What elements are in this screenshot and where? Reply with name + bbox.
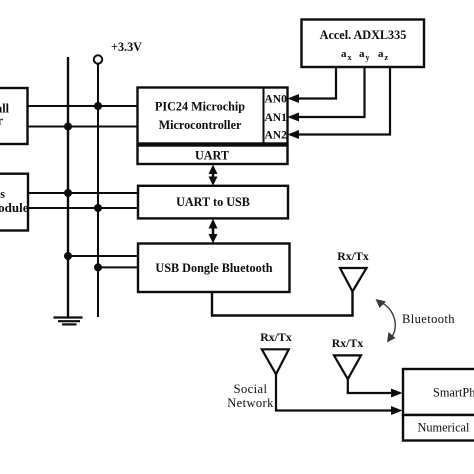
- wire B1 lower to PIC24: [28, 126, 138, 128]
- wire double arrow UART / UART-to-USB: [209, 165, 218, 186]
- node +3.3V terminal circle: [94, 55, 102, 63]
- svg-text:Module: Module: [0, 200, 29, 215]
- svg-text:y: y: [366, 53, 370, 62]
- svg-text:sensors: sensors: [0, 187, 5, 201]
- wire bluetooth curved arrow: [379, 302, 395, 340]
- svg-text:Rx/Tx: Rx/Tx: [332, 336, 364, 350]
- block U2 Accel ADXL335: [302, 20, 425, 68]
- block U4 USB Dongle Bluetooth: [138, 244, 290, 293]
- antenna A2: [262, 349, 289, 374]
- svg-text:USB Dongle Bluetooth: USB Dongle Bluetooth: [155, 261, 272, 275]
- wire double arrow UART-to-USB / USB dongle: [209, 219, 218, 244]
- junction dot 3.3V bus / dongle: [94, 263, 102, 271]
- wire B2 upper to UART-to-USB: [28, 192, 138, 194]
- block U1 PIC24 Microchip Microcontroller: [138, 88, 288, 144]
- svg-text:a: a: [341, 48, 347, 60]
- wire ax to AN0: [290, 67, 336, 99]
- svg-text:UART: UART: [195, 149, 229, 163]
- svg-text:Network: Network: [227, 396, 274, 410]
- svg-text:UART to USB: UART to USB: [176, 195, 250, 209]
- svg-text:z: z: [385, 53, 389, 62]
- junction dot 3.3V bus / B2: [94, 204, 102, 212]
- svg-text:Rx/Tx: Rx/Tx: [337, 249, 369, 263]
- wire B1 upper to PIC24: [28, 105, 138, 107]
- antenna A1: [340, 268, 367, 292]
- wire ay to AN1: [290, 67, 365, 117]
- wire dongle to antenna A1: [212, 290, 353, 316]
- svg-text:Rx/Tx: Rx/Tx: [260, 330, 292, 344]
- svg-text:Numerical: Numerical: [418, 421, 470, 435]
- wire antenna A3 to smartphone: [348, 378, 399, 393]
- wire 3.3V bus vertical: [97, 64, 99, 317]
- svg-text:AN0: AN0: [265, 94, 288, 106]
- block numerical (clipped at right edge): [403, 415, 474, 441]
- block smartphone (clipped at right edge): [403, 369, 474, 415]
- wire antenna A2 to smartphone: [276, 373, 399, 411]
- wire dongle upper left to gnd bus: [68, 255, 138, 257]
- sensor block B2 Module (clipped at left edge): [0, 174, 28, 231]
- svg-text:Microcontroller: Microcontroller: [159, 118, 242, 132]
- svg-text:PIC24 Microchip: PIC24 Microchip: [155, 100, 245, 114]
- svg-text:a: a: [378, 48, 384, 60]
- svg-text:AN1: AN1: [265, 112, 288, 124]
- junction dot 3.3V bus / B1: [94, 102, 102, 110]
- junction dot gnd bus / dongle: [64, 252, 72, 260]
- svg-text:AN2: AN2: [265, 130, 288, 142]
- wire ground bus vertical: [67, 57, 69, 318]
- wire B2 lower to UART-to-USB: [28, 207, 138, 209]
- svg-text:Bluetooth: Bluetooth: [402, 312, 455, 326]
- wire az to AN2: [290, 67, 390, 135]
- junction dot gnd bus / B1: [64, 123, 72, 131]
- block U3 UART to USB: [138, 186, 288, 219]
- wire dongle lower left to 3.3V bus: [98, 266, 138, 268]
- block UART: [138, 146, 288, 165]
- ground: [54, 318, 83, 325]
- sensor block B1 (clipped at left edge): [0, 88, 28, 144]
- svg-text:a: a: [359, 48, 365, 60]
- svg-text:Social: Social: [234, 382, 268, 396]
- svg-text:Accel. ADXL335: Accel. ADXL335: [320, 28, 407, 42]
- svg-text:SmartPhone: SmartPhone: [433, 386, 474, 400]
- antenna A3: [334, 355, 361, 379]
- junction dot gnd bus / B2: [64, 189, 72, 197]
- svg-text:+3.3V: +3.3V: [111, 40, 142, 54]
- svg-text:x: x: [348, 53, 352, 62]
